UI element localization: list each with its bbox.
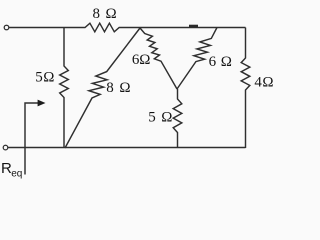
wire middle branch with resistor 5Ω (bottom) from node B to bottom wire [173,89,182,148]
wire right branch with resistor 4Ω [241,28,250,149]
svg-text:5: 5 [35,70,43,86]
label 8 Ω (diagonal resistor) [106,80,130,96]
resistor 8Ω (diagonal) with wire from node A to bottom node [65,28,140,148]
label Req [1,160,22,180]
svg-text:Ω: Ω [161,110,172,126]
resistor 6Ω (left diagonal) with wire from node A to node B [140,28,177,89]
label 4Ω (right resistor) [254,74,273,90]
svg-text:Ω: Ω [221,54,232,70]
label 6Ω (left diagonal resistor) [132,52,151,68]
label 5 Ω (left resistor) [35,70,54,86]
wire top with resistor 8Ω (top) [9,23,246,32]
terminal top-left [4,25,9,30]
svg-text:Ω: Ω [262,74,273,90]
svg-text:eq: eq [11,168,22,179]
wire bottom [8,147,246,149]
svg-text:6: 6 [209,54,217,70]
svg-text:Ω: Ω [43,70,54,86]
svg-text:5: 5 [148,110,156,126]
svg-text:8: 8 [93,6,101,22]
svg-text:Ω: Ω [139,52,150,68]
label 5 Ω (bottom resistor) [148,110,172,126]
svg-text:Ω: Ω [106,6,117,22]
terminal bottom-left [3,145,8,150]
svg-text:Ω: Ω [119,80,130,96]
svg-text:4: 4 [254,74,262,90]
resistor 6Ω (right diagonal) with wire from top node to node B [177,28,217,90]
label 8 Ω (top resistor) [93,6,117,22]
arrow Req (pointer into circuit) [25,100,46,175]
wire top smudge (scan mark) [189,25,198,27]
svg-text:8: 8 [106,80,114,96]
label 6 Ω (right diagonal resistor) [209,54,232,70]
wire left branch with resistor 5Ω (left) [60,28,69,149]
